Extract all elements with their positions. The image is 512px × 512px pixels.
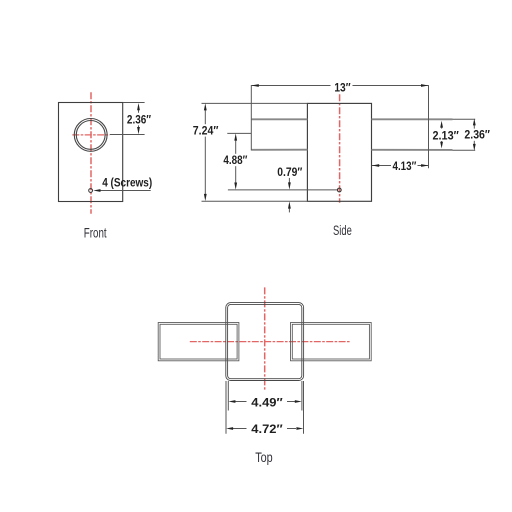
top view square tube outer wall [226,303,304,381]
side screw hole dot [337,188,341,192]
svg-text:Front: Front [84,225,107,240]
svg-text:4.72″: 4.72″ [251,422,282,436]
side dim 0.79 down arrow [288,178,290,184]
svg-text:Top: Top [255,450,273,465]
svg-text:0.79″: 0.79″ [277,165,302,179]
svg-text:Side: Side [333,223,352,238]
top dim 4.49 left arrow [235,401,247,403]
svg-text:4.88″: 4.88″ [223,153,247,167]
front view centerline vertical (red) [90,92,92,214]
svg-text:4.13″: 4.13″ [393,159,417,173]
top view left arm outer wall [158,323,239,361]
svg-text:4.49″: 4.49″ [251,395,282,409]
side dim 2.36 up arrow [473,124,475,128]
front view top extension line [123,102,145,104]
svg-text:2.36″: 2.36″ [127,112,151,126]
side view left tube top wall [252,118,308,120]
svg-text:13″: 13″ [334,80,350,94]
side dim 4.88 lower arrow [235,166,237,183]
side top reference line [202,102,308,104]
side dim 13 line left segment [251,85,330,87]
top view centerline vertical (red) [264,287,266,390]
top dim 4.49 right extension [301,381,303,411]
svg-text:2.13″: 2.13″ [433,129,459,143]
top view right arm inner wall [292,324,369,359]
side view centerline vertical (red) [339,94,341,203]
side dim 2.13 down arrow [441,141,443,143]
side dim 2.13 up arrow [441,126,443,128]
side dim 4.13 line left segment [372,165,391,167]
front view hole inner circle [76,120,105,149]
front screws leader line [100,190,151,192]
top view centerline horizontal (red) [190,341,350,343]
side view block rectangle [307,103,371,201]
front view body rectangle [59,103,123,202]
top view square tube inner wall [228,304,302,378]
side view right tube top wall [372,118,453,120]
side bottom reference line [202,200,308,202]
top dim 4.49 right arrow [287,401,296,403]
top view right arm outer wall [291,323,372,361]
front view hole center reference line [110,134,145,136]
top dim 4.72 right extension [303,381,305,434]
top dim 4.72 right arrow [287,428,296,430]
top dim 4.49 left extension [227,381,229,411]
side right extension line [428,85,430,168]
side dim 4.13 line right segment [418,165,429,167]
side screw height reference line [228,189,339,191]
front view hole outer circle [74,118,107,151]
svg-text:2.36″: 2.36″ [464,128,490,142]
top dim 4.72 left arrow [233,428,247,430]
side dim 0.79 up arrow [288,207,290,212]
front view centerline horizontal (red) [72,134,110,136]
front dim 2.36 upper arrow [138,108,140,113]
side view right tube bottom extension [453,149,476,151]
side dim 2.36 down arrow [473,141,475,145]
front screw hole [89,189,93,193]
side view left tube bottom wall [252,149,308,151]
side dim 4.88 reference line [227,132,251,134]
side view right tube bottom wall [372,149,453,151]
side view right tube top extension [453,118,476,120]
front dim 2.36 lower arrow [138,125,140,129]
side dim 7.24 upper arrow [204,109,206,125]
top view left arm inner wall [160,324,237,359]
svg-text:4 (Screws): 4 (Screws) [102,176,152,190]
side dim 13 line right segment [353,85,429,87]
svg-text:7.24″: 7.24″ [193,124,219,138]
side dim 7.24 lower arrow [204,137,206,196]
side dim 4.88 upper arrow [235,139,237,154]
top dim 4.72 left extension [225,381,227,434]
side left extension line [250,85,252,150]
